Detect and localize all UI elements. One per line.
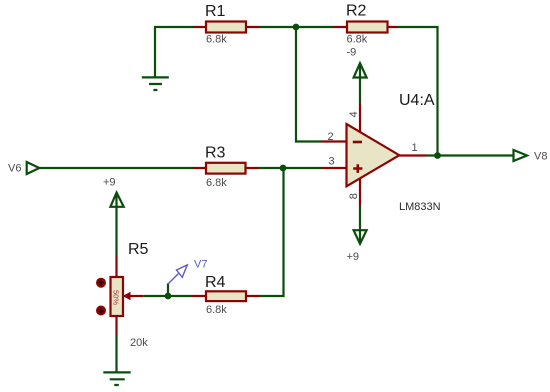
svg-text:8: 8 xyxy=(348,193,360,199)
svg-text:6.8k: 6.8k xyxy=(347,33,368,45)
ground (bottom) xyxy=(103,372,130,385)
svg-text:2: 2 xyxy=(328,131,334,143)
pin 4 lead xyxy=(359,103,361,132)
svg-text:6.8k: 6.8k xyxy=(206,33,227,45)
op-amp U4:A xyxy=(347,92,441,213)
wire R1 to R2 xyxy=(260,26,333,28)
node junction at output xyxy=(434,152,441,159)
node junction at R1/R2 xyxy=(293,24,300,31)
ground (top left) xyxy=(142,77,169,90)
svg-text:4: 4 xyxy=(348,111,360,117)
svg-text:50%: 50% xyxy=(112,290,121,305)
wire R3 to pin 3 xyxy=(259,167,322,169)
svg-text:6.8k: 6.8k xyxy=(206,304,227,316)
svg-text:V6: V6 xyxy=(8,163,21,175)
svg-text:R1: R1 xyxy=(205,3,226,20)
svg-text:1: 1 xyxy=(412,142,418,154)
input terminal V6 xyxy=(8,162,39,175)
wire from ground to R1 xyxy=(155,27,193,77)
svg-text:U4:A: U4:A xyxy=(399,92,435,109)
probe V7 xyxy=(168,258,207,284)
wire probe stub xyxy=(167,284,169,297)
pot increment button xyxy=(96,278,106,288)
svg-text:3: 3 xyxy=(329,156,335,168)
resistor R3 xyxy=(193,144,259,189)
pin 1 lead xyxy=(399,154,426,156)
wire pin 1 to output terminal xyxy=(427,154,514,156)
svg-text:20k: 20k xyxy=(130,337,148,349)
pin 2 lead xyxy=(321,140,347,142)
output terminal V8 xyxy=(514,150,548,163)
svg-text:LM833N: LM833N xyxy=(399,201,441,213)
pin 3 lead xyxy=(321,167,347,169)
resistor R2 xyxy=(333,3,398,46)
resistor R1 xyxy=(193,3,260,45)
svg-text:+9: +9 xyxy=(103,176,116,188)
potentiometer R5 xyxy=(111,241,149,349)
svg-text:R2: R2 xyxy=(346,3,367,20)
wire R5 to ground xyxy=(115,335,117,372)
node junction at pin 3 wire xyxy=(280,165,287,172)
svg-text:R5: R5 xyxy=(128,241,149,258)
power +9 arrow (to R5 top) xyxy=(103,176,124,256)
pot decrement button xyxy=(96,306,106,316)
potentiometer R5 wiper arrow xyxy=(123,292,144,300)
svg-text:V8: V8 xyxy=(534,151,547,163)
power +9 arrow (pin 8) xyxy=(347,206,367,264)
pin 8 lead xyxy=(359,179,361,206)
svg-text:6.8k: 6.8k xyxy=(206,177,227,189)
svg-text:V7: V7 xyxy=(194,258,207,270)
wire R2 to output node xyxy=(398,27,438,156)
svg-text:-9: -9 xyxy=(347,47,357,59)
power -9 arrow (pin 4) xyxy=(347,47,367,104)
svg-text:+9: +9 xyxy=(347,251,360,263)
node junction at wiper xyxy=(165,293,172,300)
wire R4 to wiper node xyxy=(144,295,192,297)
wire node down to R4 xyxy=(259,168,284,296)
svg-text:R3: R3 xyxy=(205,144,226,161)
svg-text:R4: R4 xyxy=(205,274,226,291)
resistor R4 xyxy=(192,274,259,316)
wire V6 to R3 xyxy=(39,167,193,169)
wire feedback node down to pin 2 xyxy=(296,27,321,142)
